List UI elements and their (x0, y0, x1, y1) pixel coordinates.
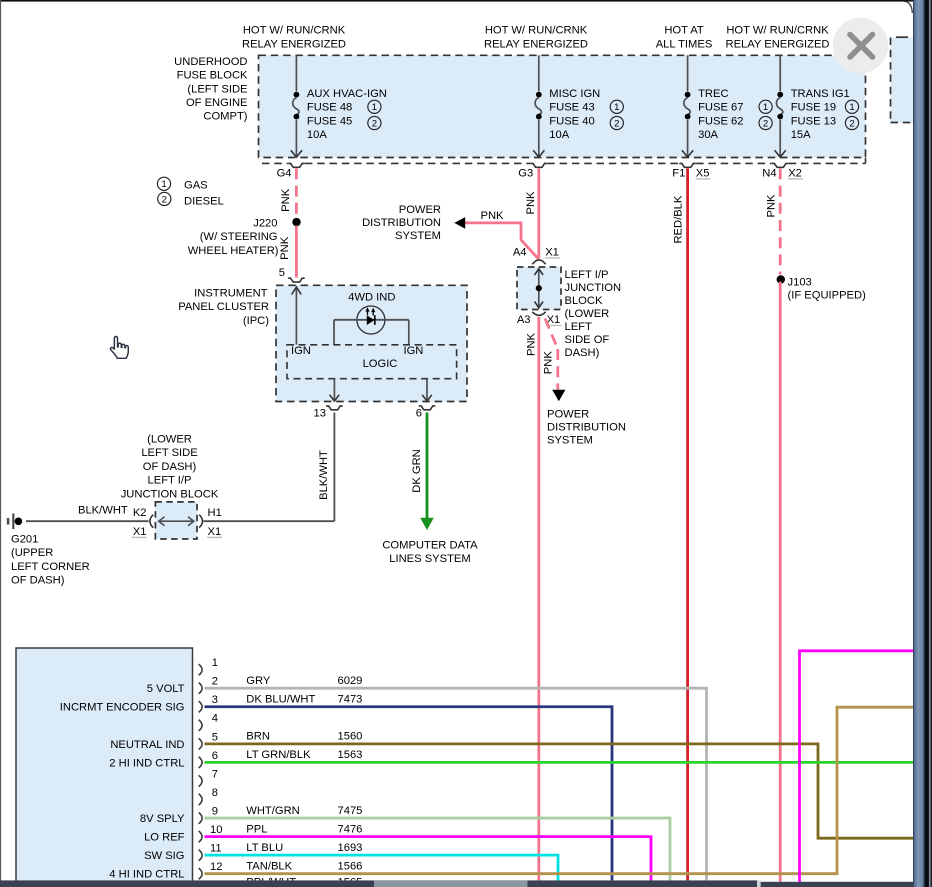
label BLK/WHT (vertical) (318, 450, 330, 500)
svg-text:NEUTRAL IND: NEUTRAL IND (110, 739, 184, 751)
svg-text:FUSE 48: FUSE 48 (307, 101, 352, 113)
svg-text:2: 2 (162, 194, 167, 205)
svg-text:PANEL CLUSTER: PANEL CLUSTER (178, 301, 269, 313)
svg-text:GRY: GRY (246, 675, 271, 687)
svg-text:9: 9 (212, 805, 218, 817)
svg-text:LEFT: LEFT (565, 321, 593, 333)
signal label: 5 VOLT (147, 683, 185, 695)
wire RED/BLK F1 down to bottom (686, 168, 689, 880)
wire LT BLU 1693 pin11 (205, 855, 559, 880)
svg-text:H1: H1 (208, 507, 222, 519)
svg-text:POWER: POWER (399, 204, 441, 216)
svg-text:PNK: PNK (525, 332, 537, 356)
svg-text:11: 11 (210, 843, 222, 855)
svg-text:DK BLU/WHT: DK BLU/WHT (246, 693, 315, 705)
pin number 13 (210, 880, 222, 887)
svg-text:PPL: PPL (246, 823, 267, 835)
label: (LOWER LEFT SIDE OF DASH) LEFT I/P JUNCTION BLOCK (121, 434, 219, 501)
label TAN/BLK 1566 (246, 860, 362, 872)
label DK BLU/WHT 7473 (246, 693, 362, 705)
svg-text:F1: F1 (672, 167, 685, 179)
svg-text:LEFT I/P: LEFT I/P (565, 269, 609, 281)
pin number 10 (210, 824, 222, 836)
connector G4 cup (288, 163, 305, 167)
pin number 9 (212, 805, 218, 817)
label X1 (H1) (207, 526, 222, 538)
svg-text:2: 2 (212, 676, 218, 688)
svg-text:LEFT SIDE: LEFT SIDE (141, 447, 197, 459)
label LT GRN/BLK 1563 (246, 749, 362, 761)
pin 6 label (416, 408, 422, 420)
wire WHT/GRN 7475 pin9 (205, 818, 671, 880)
svg-text:1693: 1693 (338, 842, 363, 854)
svg-text:TRANS IG1: TRANS IG1 (791, 88, 850, 100)
svg-text:12: 12 (210, 861, 222, 873)
svg-text:X1: X1 (208, 526, 222, 538)
indicator lamp 4WD IND (LED symbol) (334, 306, 409, 334)
svg-text:SW SIG: SW SIG (144, 850, 184, 862)
svg-text:PNK: PNK (480, 210, 504, 222)
wire PNK dashed N4 to J103 (779, 168, 782, 274)
svg-text:BLK/WHT: BLK/WHT (318, 450, 330, 500)
ground G201 symbol (7, 513, 22, 529)
svg-text:8: 8 (212, 787, 218, 799)
signal label: INCRMT ENCODER SIG (60, 702, 185, 714)
svg-text:HOT W/ RUN/CRNK: HOT W/ RUN/CRNK (485, 25, 588, 37)
junction block internal double arrow (159, 517, 194, 526)
svg-text:(IF EQUIPPED): (IF EQUIPPED) (788, 290, 867, 302)
svg-text:7475: 7475 (338, 805, 363, 817)
underhood fuse block (dashed box) (259, 55, 866, 157)
connector cup IPC pin 6 (419, 406, 436, 410)
pin number 5 (212, 731, 218, 743)
svg-text:SYSTEM: SYSTEM (395, 230, 441, 242)
svg-text:GAS: GAS (184, 179, 208, 191)
svg-text:IGN: IGN (291, 345, 311, 357)
svg-text:X1: X1 (133, 526, 147, 538)
pin number 7 (212, 768, 218, 780)
svg-text:FUSE 13: FUSE 13 (791, 116, 836, 128)
page top border (0, 0, 913, 2)
svg-text:RELAY ENERGIZED: RELAY ENERGIZED (725, 39, 829, 51)
svg-text:2: 2 (372, 118, 377, 129)
wire GRY 6029 pin2 (205, 688, 707, 880)
connector pin 4 arc (199, 720, 202, 731)
label LT BLU 1693 (246, 842, 362, 854)
svg-text:2: 2 (614, 118, 619, 129)
svg-text:5: 5 (212, 731, 218, 743)
connector A3 X1 arc (532, 312, 545, 316)
svg-text:JUNCTION BLOCK: JUNCTION BLOCK (121, 488, 219, 500)
svg-text:FUSE 43: FUSE 43 (549, 101, 594, 113)
svg-text:TAN/BLK: TAN/BLK (246, 860, 292, 872)
pin label N4 and X2 (762, 167, 803, 179)
net label: HOT W/ RUN/CRNK RELAY ENERGIZED (feed at x=538.8) (484, 25, 588, 51)
label LOGIC (363, 358, 398, 370)
connector pin 12 arc (199, 868, 202, 879)
label GRY 6029 (246, 675, 362, 687)
vertical scrollbar (913, 0, 932, 887)
connector H1 X1 arc (right paren) (199, 515, 202, 528)
lamp left lead (333, 320, 335, 345)
svg-text:13: 13 (314, 408, 326, 420)
svg-text:SIDE OF: SIDE OF (565, 334, 610, 346)
svg-text:2 HI IND CTRL: 2 HI IND CTRL (109, 757, 184, 769)
connector F1 cup (679, 163, 696, 167)
close button (833, 18, 889, 74)
label DK GRN (411, 449, 423, 493)
svg-text:1: 1 (849, 102, 854, 113)
svg-text:OF DASH): OF DASH) (11, 575, 65, 587)
svg-text:WHT/GRN: WHT/GRN (246, 805, 299, 817)
wire DK GRN pin6 down with arrow (420, 413, 434, 531)
label: INSTRUMENT PANEL CLUSTER (IPC) (178, 287, 269, 327)
svg-text:LT GRN/BLK: LT GRN/BLK (246, 749, 311, 761)
splice J220 (292, 218, 300, 226)
label X1 (A4) (545, 247, 560, 259)
label PPL/WHT 1565 (pin13, clipped) (246, 876, 362, 887)
svg-text:1563: 1563 (338, 749, 363, 761)
net label: HOT W/ RUN/CRNK RELAY ENERGIZED (feed at x=296.4) (242, 25, 346, 51)
pin number 6 (212, 750, 218, 762)
svg-text:A3: A3 (517, 314, 531, 326)
fuse FUSE 43/FUSE 40 (MISC IGN) (533, 55, 623, 157)
svg-text:IGN: IGN (404, 345, 424, 357)
svg-text:OF ENGINE: OF ENGINE (186, 97, 248, 109)
connector pin 3 arc (199, 701, 202, 712)
svg-text:BLOCK: BLOCK (565, 295, 603, 307)
page left border (0, 0, 1, 887)
svg-text:INSTRUMENT: INSTRUMENT (194, 287, 268, 299)
svg-text:G4: G4 (277, 167, 292, 179)
svg-text:1560: 1560 (338, 731, 363, 743)
svg-text:(IPC): (IPC) (243, 315, 269, 327)
svg-text:8V SPLY: 8V SPLY (140, 813, 185, 825)
svg-text:UNDERHOOD: UNDERHOOD (174, 56, 247, 68)
wire PNK solid G3 down to A4 (537, 168, 540, 258)
label PNK (branch wire) (480, 210, 504, 222)
connector A4 X1 arc (532, 260, 545, 264)
label RED/BLK (673, 195, 685, 243)
svg-text:1: 1 (161, 179, 166, 190)
svg-text:PNK: PNK (525, 191, 537, 215)
svg-text:1: 1 (372, 102, 377, 113)
signal label: 4 HI IND CTRL (109, 869, 184, 881)
svg-text:HOT W/ RUN/CRNK: HOT W/ RUN/CRNK (726, 25, 829, 37)
svg-text:FUSE 45: FUSE 45 (307, 116, 352, 128)
connector pin 10 arc (199, 831, 202, 842)
svg-text:RELAY ENERGIZED: RELAY ENERGIZED (242, 39, 346, 51)
svg-text:4WD IND: 4WD IND (348, 291, 395, 303)
svg-text:DASH): DASH) (565, 347, 600, 359)
svg-text:BLK/WHT: BLK/WHT (78, 505, 128, 517)
label PNK (to pin 5) (279, 236, 291, 260)
connector cup IPC pin 13 (326, 406, 343, 410)
pin label G3 (518, 167, 533, 179)
wire PNK solid A3 down (to bottom) (537, 317, 540, 881)
wire BRN 1560 pin5 (205, 744, 914, 838)
svg-text:N4: N4 (762, 167, 776, 179)
partial fuse block box (right, clipped) (891, 37, 932, 122)
mouse cursor (hand pointer) (110, 337, 128, 359)
svg-text:X2: X2 (788, 167, 802, 179)
pin number 1 (212, 657, 218, 669)
system ref: POWER DISTRIBUTION SYSTEM (left) (362, 204, 441, 242)
svg-text:DISTRIBUTION: DISTRIBUTION (362, 217, 441, 229)
connector face dashed line under fuse block (262, 158, 866, 164)
svg-text:(LOWER: (LOWER (565, 308, 610, 320)
svg-text:2: 2 (763, 118, 768, 129)
svg-text:X5: X5 (696, 167, 710, 179)
svg-text:G201: G201 (11, 534, 38, 546)
svg-text:FUSE 62: FUSE 62 (698, 116, 743, 128)
svg-text:7: 7 (212, 768, 218, 780)
label A4 (513, 247, 527, 259)
connector pin 11 arc (199, 850, 202, 861)
label H1 (208, 507, 222, 519)
wire PNK branch to power distribution (arrow) (454, 217, 538, 259)
svg-text:FUSE 67: FUSE 67 (698, 101, 743, 113)
connector cup IPC pin 5 (288, 278, 305, 282)
svg-text:LEFT I/P: LEFT I/P (148, 475, 192, 487)
svg-text:OF DASH): OF DASH) (143, 461, 197, 473)
signal label: 2 HI IND CTRL (109, 757, 184, 769)
pin label F1 and X5 (672, 167, 710, 179)
label WHT/GRN 7475 (246, 805, 362, 817)
fuse FUSE 48/FUSE 45 (AUX HVAC-IGN) (291, 55, 387, 157)
lamp right lead (408, 320, 410, 345)
svg-text:COMPT): COMPT) (203, 111, 247, 123)
connector pin 7 arc (199, 775, 202, 786)
pin label G4 (277, 167, 292, 179)
connector pin 1 arc (199, 664, 202, 675)
svg-text:30A: 30A (698, 129, 718, 141)
svg-text:(LOWER: (LOWER (147, 434, 192, 446)
label BLK/WHT (horizontal) (78, 505, 128, 517)
label X1 (K2) (132, 526, 147, 538)
svg-text:6029: 6029 (338, 675, 363, 687)
pin 5 label (279, 267, 285, 279)
svg-text:DK GRN: DK GRN (411, 449, 423, 493)
wire IPC pin5 to logic (IGN) with up arrow (292, 287, 302, 345)
connector pin 9 arc (199, 813, 202, 824)
signal label: 8V SPLY (140, 813, 185, 825)
label PNK (G4 wire) (280, 188, 292, 212)
svg-text:RED/BLK: RED/BLK (673, 195, 685, 243)
svg-text:X1: X1 (545, 247, 559, 259)
svg-text:COMPUTER DATA: COMPUTER DATA (382, 540, 478, 552)
pin number 12 (210, 861, 222, 873)
svg-text:7476: 7476 (338, 823, 363, 835)
signal label: NEUTRAL IND (110, 739, 184, 751)
svg-text:ALL TIMES: ALL TIMES (656, 39, 713, 51)
connector pin 5 arc (199, 738, 202, 749)
label K2 (133, 507, 147, 519)
svg-text:HOT W/ RUN/CRNK: HOT W/ RUN/CRNK (243, 25, 346, 37)
svg-text:LOGIC: LOGIC (363, 358, 398, 370)
svg-text:10: 10 (210, 824, 222, 836)
label BRN 1560 (246, 731, 362, 743)
svg-text:JUNCTION: JUNCTION (565, 282, 622, 294)
svg-text:WHEEL HEATER): WHEEL HEATER) (188, 245, 279, 257)
connector pin 8 arc (199, 794, 202, 805)
label: UNDERHOOD FUSE BLOCK (LEFT SIDE OF ENGINE COMPT) (174, 56, 248, 123)
svg-text:INCRMT ENCODER SIG: INCRMT ENCODER SIG (60, 702, 185, 714)
svg-text:LT BLU: LT BLU (246, 842, 283, 854)
svg-text:DISTRIBUTION: DISTRIBUTION (547, 422, 626, 434)
connector pin 6 arc (199, 757, 202, 768)
svg-text:2: 2 (849, 118, 854, 129)
wire PNK dashed A3 to power distribution (545, 319, 565, 402)
label J220 (W/ STEERING WHEEL HEATER) (188, 218, 279, 257)
instrument panel cluster box (276, 285, 467, 401)
pin number 8 (212, 787, 218, 799)
label G201 (UPPER LEFT CORNER OF DASH) (11, 534, 90, 587)
svg-text:6: 6 (416, 408, 422, 420)
svg-text:1: 1 (614, 102, 619, 113)
logic box (287, 345, 457, 379)
svg-text:AUX HVAC-IGN: AUX HVAC-IGN (307, 88, 387, 100)
top-right rounded corner outline (904, 1, 912, 13)
wire PPL 7476 pin10 (205, 837, 652, 881)
svg-text:1566: 1566 (338, 860, 363, 872)
wire PNK dashed G4 to J220 (295, 168, 298, 218)
svg-text:A4: A4 (513, 247, 527, 259)
svg-text:4 HI IND CTRL: 4 HI IND CTRL (109, 869, 184, 881)
svg-text:10A: 10A (307, 129, 327, 141)
system ref: POWER DISTRIBUTION SYSTEM (below) (547, 409, 626, 447)
svg-text:4: 4 (212, 713, 218, 725)
svg-text:PNK: PNK (766, 194, 778, 218)
signal label: SW SIG (144, 850, 184, 862)
horizontal scrollbar thumb (374, 880, 528, 887)
label X1 (A3) (546, 314, 561, 326)
horizontal scrollbar track (0, 880, 913, 887)
svg-text:(W/ STEERING: (W/ STEERING (200, 231, 278, 243)
label: LEFT I/P JUNCTION BLOCK (LOWER LEFT SIDE OF DASH) (565, 269, 622, 359)
svg-text:PNK: PNK (280, 188, 292, 212)
wire logic out pin 13 with down arrow (330, 379, 340, 401)
label J103 (IF EQUIPPED) (788, 277, 867, 302)
svg-text:5: 5 (279, 267, 285, 279)
label A3 (517, 314, 531, 326)
junction block box (K2/H1) (155, 502, 197, 539)
svg-text:LINES SYSTEM: LINES SYSTEM (389, 553, 470, 565)
label PNK (dashed wire) (543, 351, 555, 375)
label PNK (A3 down wire) (525, 332, 537, 356)
fuse FUSE 67/FUSE 62 (TREC) (682, 55, 772, 157)
wire DK BLU/WHT 7473 pin3 (205, 707, 613, 881)
label PPL 7476 (246, 823, 362, 835)
net label: HOT AT ALL TIMES (feed at x=687.6) (656, 25, 713, 51)
wire logic out pin 6 with down arrow (422, 379, 432, 401)
label PNK (G3 wire) (525, 191, 537, 215)
svg-text:K2: K2 (133, 507, 147, 519)
svg-text:FUSE 19: FUSE 19 (791, 101, 836, 113)
fuse FUSE 19/FUSE 13 (TRANS IG1) (775, 55, 859, 157)
wire PPL from right edge (800, 651, 914, 882)
svg-text:7473: 7473 (338, 693, 363, 705)
net label: HOT W/ RUN/CRNK RELAY ENERGIZED (feed at x=780.2) (725, 25, 829, 51)
pin 13 label (314, 408, 326, 420)
svg-text:TREC: TREC (698, 88, 728, 100)
connector K2 X1 arc (left paren) (150, 515, 153, 528)
svg-text:1: 1 (212, 657, 218, 669)
svg-text:3: 3 (212, 694, 218, 706)
svg-text:15A: 15A (791, 129, 811, 141)
pin number 3 (212, 694, 218, 706)
wire PNK solid J220 to IPC pin 5 (295, 226, 298, 278)
svg-text:PNK: PNK (543, 351, 555, 375)
label 4WD IND (348, 291, 395, 303)
svg-text:RELAY ENERGIZED: RELAY ENERGIZED (484, 39, 588, 51)
wire BLK/WHT horizontal to junction block (204, 520, 335, 522)
svg-text:J220: J220 (253, 218, 277, 230)
svg-text:5 VOLT: 5 VOLT (147, 683, 185, 695)
svg-text:6: 6 (212, 750, 218, 762)
pin number 11 (210, 843, 222, 855)
svg-text:10A: 10A (549, 129, 569, 141)
svg-text:PNK: PNK (279, 236, 291, 260)
svg-text:DIESEL: DIESEL (184, 196, 224, 208)
svg-text:FUSE 40: FUSE 40 (549, 116, 594, 128)
svg-text:(LEFT SIDE: (LEFT SIDE (187, 83, 247, 95)
svg-text:1: 1 (763, 102, 768, 113)
system ref: COMPUTER DATA LINES SYSTEM (382, 540, 478, 566)
connector G3 cup (531, 163, 548, 167)
svg-text:MISC IGN: MISC IGN (549, 88, 600, 100)
svg-text:SYSTEM: SYSTEM (547, 435, 593, 447)
signal label: LO REF (144, 832, 185, 844)
wire PNK solid J103 down to bottom (779, 282, 782, 882)
svg-text:(UPPER: (UPPER (11, 547, 53, 559)
svg-text:J103: J103 (788, 277, 812, 289)
component box (bottom connector) (16, 648, 193, 887)
connector pin 2 arc (199, 683, 202, 694)
splice J103 (777, 275, 785, 283)
left I/P junction block box (517, 267, 561, 310)
svg-text:HOT AT: HOT AT (664, 25, 704, 37)
svg-text:BRN: BRN (246, 731, 270, 743)
pin number 2 (212, 676, 218, 688)
wire LT GRN/BLK 1563 pin6 (205, 761, 914, 764)
pin number 4 (212, 713, 218, 725)
wire BLK/WHT to ground (26, 520, 149, 522)
connector N4 cup (772, 163, 789, 167)
svg-text:FUSE BLOCK: FUSE BLOCK (177, 70, 248, 82)
svg-text:G3: G3 (518, 167, 533, 179)
wire TAN/BLK 1566 pin12 (205, 707, 914, 874)
wire BLK/WHT pin13 down (333, 413, 335, 522)
svg-text:POWER: POWER (547, 409, 589, 421)
legend: (1) GAS (2) DIESEL (157, 177, 223, 208)
label PNK (N4 wire) (766, 194, 778, 218)
svg-text:LEFT CORNER: LEFT CORNER (11, 561, 90, 573)
junction block internal wire with arrows and splice (535, 269, 544, 308)
label IGN (right) (404, 345, 424, 357)
svg-text:LO REF: LO REF (144, 832, 185, 844)
label IGN (left) (291, 345, 311, 357)
